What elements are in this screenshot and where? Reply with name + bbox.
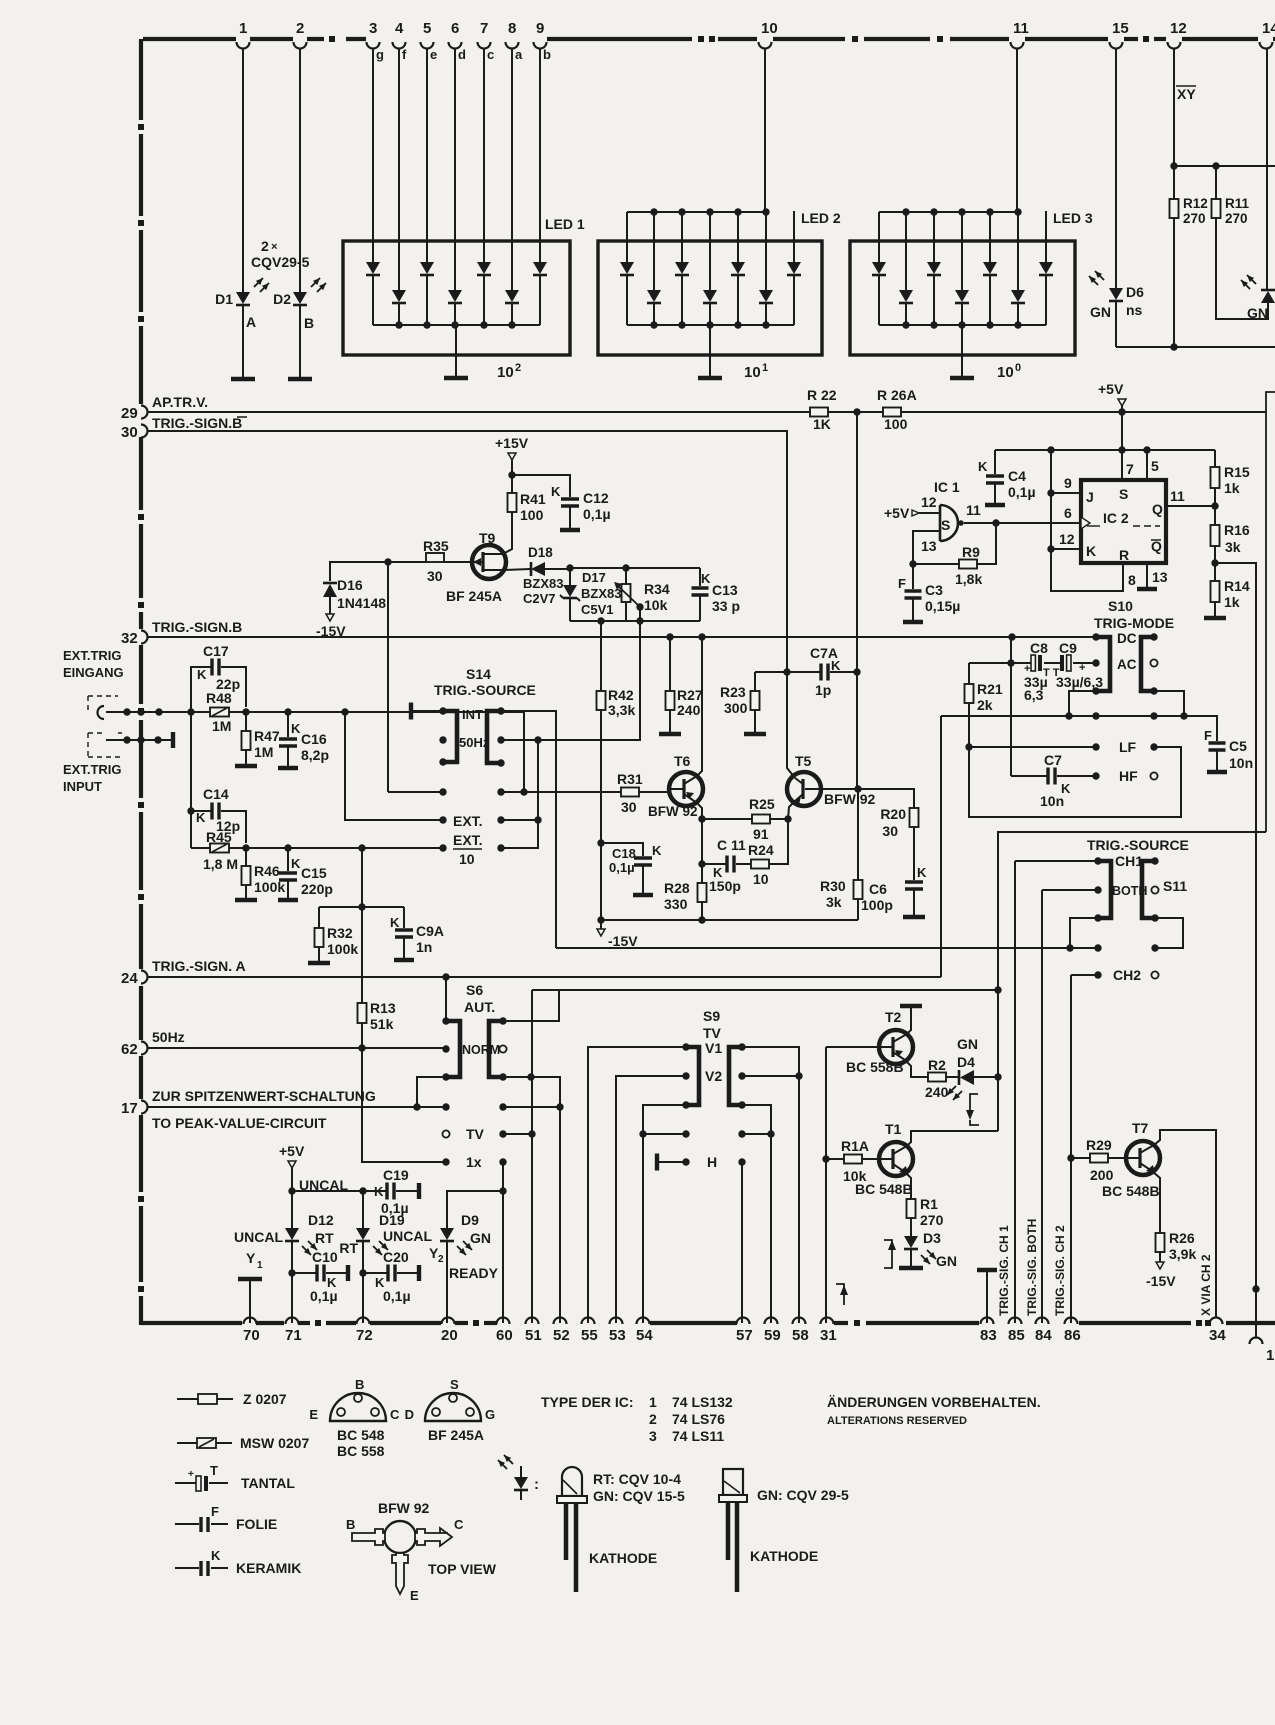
wire S14 EXT right loop <box>501 820 538 848</box>
svg-text:R28: R28 <box>664 880 690 896</box>
wire terminal to LED1 diode col b <box>539 49 541 262</box>
svg-text:D19: D19 <box>379 1212 405 1228</box>
terminal 6 <box>449 42 462 49</box>
resistor R27 240 <box>669 637 671 691</box>
svg-text:f: f <box>402 47 407 62</box>
node wire y166 <box>1174 165 1275 167</box>
svg-text:K: K <box>831 658 841 673</box>
S11 contact open right <box>1151 886 1158 893</box>
svg-text:C7: C7 <box>1044 752 1062 768</box>
svg-text:D: D <box>405 1407 414 1422</box>
svg-text:A: A <box>246 314 256 330</box>
wire connector 86 TRIG.-SIG.CH2 <box>1070 975 1072 1323</box>
terminal 3 <box>367 42 380 49</box>
ground D1 <box>231 377 255 382</box>
svg-text:K: K <box>196 810 206 825</box>
-15V terminal below R42 <box>597 929 605 936</box>
node wire y347 <box>1116 346 1275 348</box>
svg-text:S: S <box>1119 486 1128 502</box>
svg-text:B: B <box>346 1517 355 1532</box>
LED1 diode c <box>477 262 491 274</box>
svg-text:11: 11 <box>1013 20 1029 37</box>
svg-text:C18: C18 <box>612 846 636 861</box>
S14 contact INT <box>439 707 446 714</box>
svg-text:12: 12 <box>921 494 937 510</box>
connector 30 <box>141 425 148 438</box>
svg-text:TRIG.-SIGN.B: TRIG.-SIGN.B <box>152 415 242 431</box>
ground C4 <box>985 503 1005 508</box>
svg-text:6: 6 <box>1064 505 1072 521</box>
LED3 label leader <box>1045 211 1047 241</box>
resistor R23 300 <box>754 672 756 691</box>
svg-text:30: 30 <box>621 799 637 815</box>
wire S6 TV right to 51 column <box>503 1133 532 1135</box>
connector below frame right <box>1250 1338 1263 1344</box>
frame left border <box>139 39 143 120</box>
IC2 flip-flop 74LS76 <box>1081 480 1166 563</box>
svg-text:C12: C12 <box>583 490 609 506</box>
svg-text:R26: R26 <box>1169 1230 1195 1246</box>
potentiometer R34 10k <box>625 568 627 584</box>
svg-text:R23: R23 <box>720 684 746 700</box>
wire LED2 bottom-row diode <box>653 212 655 290</box>
S6 contact NORM <box>442 1045 449 1052</box>
capacitor C16 8.2p <box>287 712 289 737</box>
svg-text:LED 2: LED 2 <box>801 210 841 226</box>
terminal 11 <box>1011 42 1024 49</box>
svg-text:C15: C15 <box>301 865 327 881</box>
T5 emitter <box>788 794 803 819</box>
LED D6 <box>1109 288 1123 300</box>
svg-text:84: 84 <box>1035 1327 1052 1344</box>
wire LED1 diode d to common <box>454 304 456 325</box>
svg-text:READY: READY <box>449 1265 499 1281</box>
svg-text:31: 31 <box>820 1327 837 1344</box>
wire T9 source to D18 <box>504 569 530 570</box>
S9 row3 to row4 link <box>643 1105 686 1134</box>
legend LED lamp RT/GN <box>562 1467 582 1496</box>
svg-text:R11: R11 <box>1225 196 1250 211</box>
wire LED1 diode b to common <box>539 276 541 325</box>
svg-text:220p: 220p <box>301 881 333 897</box>
ground R46 <box>235 898 257 903</box>
svg-text:V1: V1 <box>705 1040 722 1056</box>
svg-text:GN: GN <box>1247 305 1268 321</box>
wire terminal 10 down <box>764 49 766 212</box>
svg-text:6,3: 6,3 <box>1024 687 1044 703</box>
ground C5 <box>1207 770 1227 775</box>
capacitor C10 0.1u <box>292 1272 316 1274</box>
svg-text:D17: D17 <box>582 570 606 585</box>
svg-text:1: 1 <box>257 1260 263 1271</box>
svg-text:FOLIE: FOLIE <box>236 1516 277 1532</box>
svg-text:TRIG.-SIG. CH 1: TRIG.-SIG. CH 1 <box>997 1225 1011 1316</box>
wire LED3 top-row diode <box>878 212 880 262</box>
resistor R12 <box>1173 198 1175 201</box>
svg-text:D2: D2 <box>273 291 291 307</box>
wire LED2 top-row diode <box>626 212 628 262</box>
node wire y907 <box>319 906 404 908</box>
wire <box>905 304 907 325</box>
svg-text:0,1µ: 0,1µ <box>583 506 611 522</box>
S11 contact CH1 <box>1094 857 1101 864</box>
wire peak-value line 17 <box>148 1106 446 1108</box>
S9 contact V1 right <box>738 1043 745 1050</box>
svg-text:30: 30 <box>882 823 898 839</box>
connector 53 <box>610 1318 623 1324</box>
wire C12 to ground <box>569 506 571 528</box>
termination bar C19 <box>417 1183 421 1199</box>
svg-text:57: 57 <box>736 1327 753 1344</box>
svg-text:K: K <box>374 1184 384 1199</box>
resistor R13 51k <box>361 1002 363 1005</box>
S11 contact CH2 right open <box>1151 971 1158 978</box>
connector 52 <box>554 1318 567 1324</box>
wire terminal to LED1 diode col d <box>454 49 456 290</box>
S10 contact DC <box>1092 633 1099 640</box>
LED D5 <box>1261 291 1275 303</box>
svg-text:15: 15 <box>1112 20 1129 37</box>
svg-text:BC 558: BC 558 <box>337 1443 385 1459</box>
legend keramik capacitor <box>175 1567 199 1569</box>
svg-text:R35: R35 <box>423 538 449 554</box>
LED2 diode <box>787 262 801 274</box>
wire LED2 top-row diode <box>737 212 739 262</box>
svg-text:20: 20 <box>441 1327 458 1344</box>
wire TRIG.-SIGN.B line 32 <box>148 636 1096 638</box>
svg-text:R47: R47 <box>254 728 280 744</box>
svg-text:IC 2: IC 2 <box>1103 510 1129 526</box>
svg-text:11: 11 <box>1170 488 1185 504</box>
svg-text:MSW 0207: MSW 0207 <box>240 1435 309 1451</box>
bar above connector 83 <box>977 1268 997 1273</box>
svg-text:T T: T T <box>1043 667 1060 679</box>
wire terminal to LED1 diode col a <box>511 49 513 290</box>
connector 29 <box>141 406 148 419</box>
wire TRIG.-SIGN.B-bar line 30 to T5 base <box>148 431 795 778</box>
svg-text:60: 60 <box>496 1327 513 1344</box>
svg-text:NORM: NORM <box>462 1043 500 1057</box>
svg-text:ALTERATIONS RESERVED: ALTERATIONS RESERVED <box>827 1415 967 1427</box>
svg-text:AC: AC <box>1117 657 1137 672</box>
wire <box>961 304 963 325</box>
wire connector 85 TRIG.-SIG.CH1 <box>1014 861 1016 1323</box>
legend MSW0207 resistor <box>177 1442 197 1444</box>
connector 59 <box>765 1318 778 1324</box>
LED D9 GN READY <box>447 1191 503 1228</box>
resistor R1A 10k <box>826 1158 844 1160</box>
svg-text:330: 330 <box>664 896 688 912</box>
T7 collector <box>1140 1130 1216 1318</box>
svg-text:3,3k: 3,3k <box>608 702 635 718</box>
wire node to D16 <box>330 562 388 581</box>
wire D19 down <box>362 1242 364 1323</box>
svg-text:C2V7: C2V7 <box>523 591 556 606</box>
wire R9 to output node <box>977 523 996 564</box>
resistor R2 240 <box>928 1073 946 1082</box>
svg-text:BC 548: BC 548 <box>337 1427 385 1443</box>
svg-text:10: 10 <box>459 851 475 867</box>
S9 bracket left <box>686 1047 699 1105</box>
wire LED3 bottom-row diode <box>961 212 963 290</box>
svg-text:KERAMIK: KERAMIK <box>236 1560 301 1576</box>
LED D12 RT <box>291 1191 293 1228</box>
T6 emitter <box>684 794 702 819</box>
svg-text:54: 54 <box>636 1327 653 1344</box>
resistor R15 1k <box>1214 466 1216 469</box>
capacitor C18 0.1u <box>601 843 643 856</box>
S9 bracket right <box>729 1047 742 1105</box>
terminal 2 <box>294 42 307 49</box>
T1 collector <box>893 1131 998 1154</box>
right bus wire to T1 collector column <box>998 832 1266 1131</box>
S6 contact 1x right <box>499 1158 506 1165</box>
wire D9 down <box>446 1242 448 1323</box>
wire R48 node to S14 row <box>523 712 525 792</box>
svg-text:50Hz: 50Hz <box>459 735 490 750</box>
S10 row3 to row4 link <box>1069 691 1096 716</box>
capacitor C4 0.1u <box>994 450 996 474</box>
svg-text:b: b <box>543 47 551 62</box>
wire <box>737 276 739 325</box>
svg-text:+5V: +5V <box>1098 381 1124 397</box>
svg-text:BZX83: BZX83 <box>523 576 563 591</box>
svg-text:1: 1 <box>1266 1347 1274 1364</box>
svg-text:CQV29-5: CQV29-5 <box>251 254 310 270</box>
wire terminal to LED1 diode col e <box>426 49 428 262</box>
svg-text:3: 3 <box>369 20 377 37</box>
S11 row4 right link <box>1155 918 1183 948</box>
terminal 7 <box>478 42 491 49</box>
svg-text:72: 72 <box>356 1327 373 1344</box>
svg-text:S: S <box>941 517 950 533</box>
svg-text:R45: R45 <box>206 829 232 845</box>
svg-text:a: a <box>515 47 523 62</box>
LED1 diode d <box>448 290 462 302</box>
svg-text:K: K <box>652 843 662 858</box>
S11 row3 contacts <box>1094 914 1101 921</box>
svg-text:R31: R31 <box>617 771 643 787</box>
ground LED1 <box>444 376 468 381</box>
connector 83 <box>981 1318 994 1324</box>
terminal 8 <box>506 42 519 49</box>
wire LED3 common to ground <box>961 325 963 376</box>
svg-text:K: K <box>390 915 400 930</box>
svg-text:K: K <box>291 721 301 736</box>
svg-text:D1: D1 <box>215 291 233 307</box>
LED2 diode <box>731 262 745 274</box>
svg-text:13: 13 <box>1152 569 1168 585</box>
svg-text:K: K <box>551 484 561 499</box>
svg-text:×: × <box>271 241 277 253</box>
IC2 pin 12 wire <box>1051 548 1081 550</box>
svg-text:BC 548B: BC 548B <box>1102 1183 1160 1199</box>
S14 contact EXT <box>439 816 446 823</box>
svg-text:R16: R16 <box>1224 522 1250 538</box>
S10 contact AC <box>1092 659 1099 666</box>
svg-text:10: 10 <box>753 871 769 887</box>
svg-text:6: 6 <box>451 20 459 37</box>
S10 row3 contacts <box>1092 687 1099 694</box>
svg-text:Q: Q <box>1152 501 1163 517</box>
wire S9 row3 right to connector 59 <box>742 1105 771 1323</box>
svg-text:TRIG.-SOURCE: TRIG.-SOURCE <box>1087 837 1189 853</box>
svg-text:S9: S9 <box>703 1008 720 1024</box>
svg-text:10k: 10k <box>843 1168 867 1184</box>
svg-text:74 LS76: 74 LS76 <box>672 1411 725 1427</box>
zener D17 BZX83 C5V1 <box>569 568 571 585</box>
LED1 box <box>343 241 570 355</box>
S14 bracket left <box>443 711 457 762</box>
svg-text:240: 240 <box>925 1084 949 1100</box>
S9 contact V1 <box>682 1043 689 1050</box>
svg-text:EXT.: EXT. <box>453 832 483 848</box>
svg-text:83: 83 <box>980 1327 997 1344</box>
transistor T9 BF245A <box>472 545 506 579</box>
resistor R21 2k <box>969 662 1011 664</box>
svg-text:UNCAL: UNCAL <box>383 1228 432 1244</box>
shield termination bar <box>171 732 175 748</box>
svg-text:BFW 92: BFW 92 <box>824 791 876 807</box>
svg-text:IC 1: IC 1 <box>934 479 960 495</box>
LED3 common cathode wire <box>879 324 1046 326</box>
svg-text:8,2p: 8,2p <box>301 747 329 763</box>
T2 collector <box>893 1008 911 1042</box>
svg-text:R48: R48 <box>206 690 232 706</box>
LED1 diode f <box>392 290 406 302</box>
wire S6 row1077 to connector 52 <box>503 1077 560 1323</box>
svg-text:51: 51 <box>525 1327 542 1344</box>
wire <box>653 304 655 325</box>
svg-text:D16: D16 <box>337 577 363 593</box>
resistor R25 91 <box>702 818 752 820</box>
S14 bracket right <box>487 711 501 763</box>
svg-text:1M: 1M <box>212 718 231 734</box>
svg-text:3k: 3k <box>1225 539 1241 555</box>
wire LED1 diode e to common <box>426 276 428 325</box>
S6 contacts row 1107 <box>442 1103 449 1110</box>
wire R11 from node <box>1215 166 1217 199</box>
svg-text:0,15µ: 0,15µ <box>925 598 960 614</box>
legend tantal capacitor <box>175 1482 196 1484</box>
pointer mark D3 <box>884 1240 892 1262</box>
svg-text:LED 1: LED 1 <box>545 216 585 232</box>
wire CH1 to connector 85 <box>1015 860 1098 862</box>
resistor R41 <box>511 492 513 495</box>
svg-text:T2: T2 <box>885 1009 902 1025</box>
wire S9 row4 right link <box>742 1133 771 1135</box>
svg-text:RT: RT <box>339 1240 358 1256</box>
svg-text:R27: R27 <box>677 687 703 703</box>
wire LED1 diode c to common <box>483 276 485 325</box>
LED2 common cathode wire <box>627 324 794 326</box>
resistor R9 1.8k <box>913 563 959 565</box>
svg-text:TRIG-MODE: TRIG-MODE <box>1094 615 1174 631</box>
svg-text:53: 53 <box>609 1327 626 1344</box>
svg-text:ZUR SPITZENWERT-SCHALTUNG: ZUR SPITZENWERT-SCHALTUNG <box>152 1088 376 1104</box>
svg-text:14: 14 <box>1262 20 1275 37</box>
wire S9 row4 to connector 54 <box>642 1134 644 1323</box>
svg-text:270: 270 <box>1183 211 1206 226</box>
wire D6 to node line <box>1115 302 1117 347</box>
resistor R1 270 <box>910 1198 912 1201</box>
svg-text:30: 30 <box>427 568 443 584</box>
svg-text:GN: GN <box>1090 304 1111 320</box>
svg-text:5: 5 <box>1151 458 1159 474</box>
svg-text:2: 2 <box>649 1411 657 1427</box>
capacitor C8 33u electrolytic <box>1011 662 1031 664</box>
svg-text:50Hz: 50Hz <box>152 1029 185 1045</box>
bar above T2 <box>900 1004 922 1009</box>
svg-text:91: 91 <box>753 826 769 842</box>
S9 anchor H <box>655 1154 659 1171</box>
LED D4 GN <box>960 1070 974 1085</box>
LED2 anode bus <box>627 211 766 213</box>
S10 contact DC right <box>1150 633 1157 640</box>
wire C8 left to DC node <box>1010 637 1012 663</box>
svg-text:52: 52 <box>553 1327 570 1344</box>
wire rail to R15 <box>1214 450 1216 467</box>
svg-text:R15: R15 <box>1224 464 1250 480</box>
svg-text:T9: T9 <box>479 530 496 546</box>
S6 bracket left <box>446 1021 460 1077</box>
node wire y568 <box>570 567 700 569</box>
LED1 common cathode wire <box>373 324 540 326</box>
capacitor C9A 1n <box>403 907 405 928</box>
svg-text:F: F <box>898 576 906 591</box>
legend BF245A package <box>425 1393 481 1421</box>
svg-text:300: 300 <box>724 700 748 716</box>
IC1 pin 13 wire <box>913 531 940 564</box>
svg-text:10: 10 <box>997 364 1014 381</box>
svg-text:33µ/6,3: 33µ/6,3 <box>1056 674 1103 690</box>
svg-text:E: E <box>410 1588 419 1603</box>
wire LED3 bottom-row diode <box>1017 212 1019 290</box>
svg-text:R12: R12 <box>1183 196 1208 211</box>
ground R14 <box>1204 616 1226 621</box>
pointer mark D4 <box>970 1094 978 1112</box>
svg-text:D3: D3 <box>923 1230 941 1246</box>
T5 base from top <box>795 778 803 784</box>
svg-text:12: 12 <box>1170 20 1187 37</box>
svg-text:BFW 92: BFW 92 <box>648 804 698 819</box>
transistor T6 BFW92 <box>669 772 703 806</box>
LED1 diode a <box>505 290 519 302</box>
svg-text:R: R <box>1119 547 1129 563</box>
svg-text:1k: 1k <box>1224 594 1240 610</box>
capacitor C5 10n <box>1209 741 1226 744</box>
capacitor C17 22p <box>191 667 211 712</box>
svg-text:T: T <box>210 1463 218 1478</box>
wire +5V down to IC2 rail <box>1121 412 1123 450</box>
svg-text:10n: 10n <box>1040 793 1064 809</box>
wire D12 down <box>291 1242 293 1323</box>
svg-text:C: C <box>390 1407 400 1422</box>
svg-text:D4: D4 <box>957 1054 975 1070</box>
svg-text:10: 10 <box>744 364 761 381</box>
resistor R22 <box>810 408 828 417</box>
node wire y621 <box>570 620 700 622</box>
svg-text:270: 270 <box>1225 211 1248 226</box>
wire BOTH to connector 84 <box>1042 889 1098 891</box>
svg-text:GN: GN <box>936 1253 957 1269</box>
wire EXT/10 node down <box>361 848 363 907</box>
svg-text:K: K <box>917 865 927 880</box>
svg-text:2: 2 <box>261 238 269 254</box>
LED2 diode <box>703 290 717 302</box>
connector 71 <box>286 1318 299 1324</box>
wire LED1 diode f to common <box>398 304 400 325</box>
